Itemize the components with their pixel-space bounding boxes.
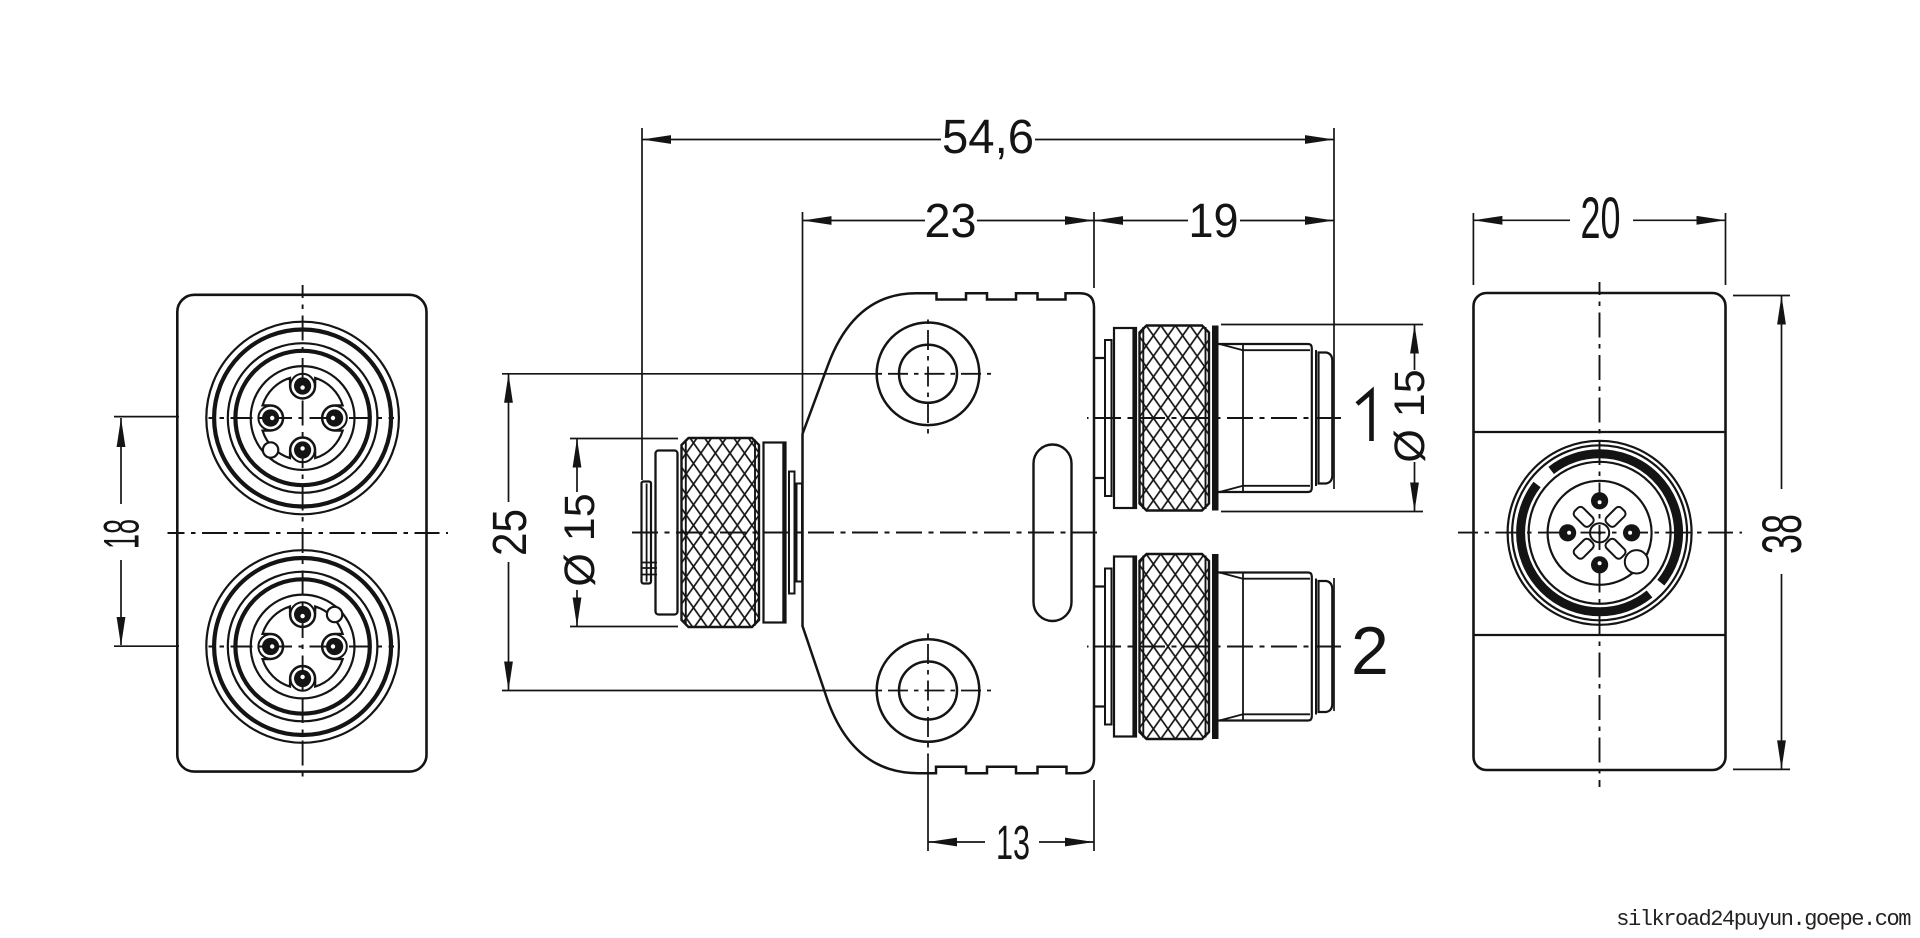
ring A [1105,340,1112,496]
ring B [1114,328,1136,508]
svg-text:Ø 15: Ø 15 [556,493,604,586]
svg-text:23: 23 [925,195,977,248]
dim diam15 right [1221,325,1423,512]
dimension 38 [1733,296,1790,770]
rear female connector (left) [642,438,803,627]
svg-text:2: 2 [1351,613,1389,689]
thread barrel [1219,344,1309,492]
center cross hole [1590,523,1609,542]
svg-text:20: 20 [1581,186,1621,251]
divider lines [1474,431,1726,433]
right view body rect [1474,293,1726,770]
mounting hole top [877,323,980,426]
horizontal centerline [1458,532,1742,534]
svg-text:13: 13 [996,817,1030,870]
mounting hole bottom [877,639,980,742]
diagonal cutouts [1572,505,1627,560]
svg-text:Ø 15: Ø 15 [1386,369,1434,462]
stub [1094,358,1106,478]
dim diam15 left [570,439,678,627]
washer large [764,443,786,623]
washer small [789,472,795,594]
svg-text:54,6: 54,6 [942,111,1034,164]
right view connector face [1508,441,1692,625]
bottom circle crosshair [209,646,395,648]
hole crosshairs [875,314,991,756]
axis centerlines [632,418,1344,647]
dimension 20 [1473,213,1725,285]
dark seal ring with gaps [1521,454,1679,612]
dim 54,6 [642,128,1334,711]
lock washer (dark strip) [1212,326,1219,511]
top circle crosshair [209,417,395,419]
svg-text:25: 25 [484,509,537,556]
knurled nut [682,438,760,627]
cap [642,482,652,584]
stub [797,484,803,582]
svg-text:19: 19 [1189,195,1239,248]
dimension 18 [114,417,179,647]
svg-text:18: 18 [94,519,150,549]
labels 1 and 2 [1351,392,1389,690]
left view vertical centerline [302,285,304,781]
male pins [1559,492,1640,573]
left view horizontal mid centerline [168,532,449,534]
dim 25 [502,374,876,691]
dim 13 [928,756,1094,851]
shell cylinder [656,451,678,615]
Y-body flange outline [803,293,1095,773]
keyway circle bottom-right [1625,550,1648,573]
male connector 1 [1094,326,1333,511]
knurl [1140,326,1210,511]
svg-text:38: 38 [1750,514,1813,554]
top female face [206,322,399,515]
left view body rect [177,295,426,772]
vertical centerline [1599,282,1601,787]
bottom female face (rotated 180) [206,550,399,743]
male connector 2 [1094,554,1333,739]
tip [1319,353,1333,484]
body slot [1034,445,1072,622]
dim 23 and 19 [803,212,1335,433]
